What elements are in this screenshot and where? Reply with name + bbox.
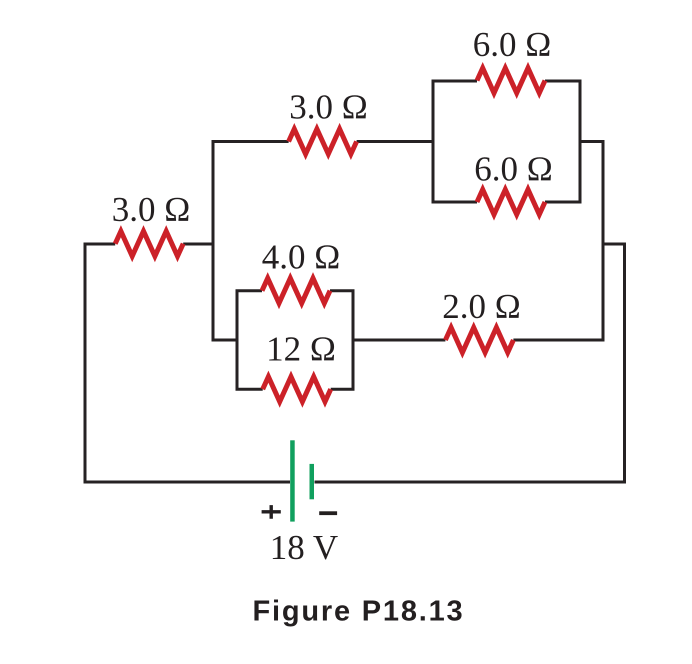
label: battery + terminal sign: [262, 505, 281, 519]
wire: left vertical and bottom-left run from left 3.0 ohm resistor to battery + terminal: [85, 244, 290, 482]
svg-text:3.0 Ω: 3.0 Ω: [112, 190, 191, 229]
battery V1 positive plate (long bar): [290, 440, 295, 521]
svg-text:18 V: 18 V: [270, 528, 338, 567]
resistor R6 12 ohm (lower of parallel pair): [263, 377, 331, 402]
resistor R4 6.0 ohm (lower of parallel pair): [477, 190, 545, 215]
wire: top branch segment from 3.0 ohm resistor to 6.0 ohm parallel box: [357, 140, 433, 143]
resistor R3 6.0 ohm (upper of parallel pair): [477, 68, 545, 93]
resistor R1 3.0 ohm (left): [115, 231, 183, 256]
svg-text:3.0 Ω: 3.0 Ω: [289, 88, 368, 127]
wire: bottom-right run from battery - terminal up right side to jog at y244: [315, 244, 625, 482]
svg-text:2.0 Ω: 2.0 Ω: [442, 287, 521, 326]
wire: 6.0 ohm parallel box right side: [545, 81, 580, 202]
svg-text:4.0 Ω: 4.0 Ω: [262, 238, 341, 277]
wire: right vertical node joining top branch output and 2.0 ohm branch: [513, 142, 603, 341]
svg-text:12 Ω: 12 Ω: [266, 330, 336, 369]
resistor R5 4.0 ohm (upper of parallel pair): [262, 278, 330, 303]
battery V1 negative plate (short bar): [310, 464, 315, 499]
label: battery - terminal sign: [319, 511, 337, 515]
svg-text:6.0 Ω: 6.0 Ω: [474, 150, 553, 189]
wire: segment from 4/12 ohm box to 2.0 ohm resistor: [353, 339, 445, 342]
wire: 4/12 ohm parallel box left side: [237, 291, 263, 390]
svg-text:6.0 Ω: 6.0 Ω: [473, 25, 552, 64]
wire: node vertical between top and bottom branches: [212, 140, 215, 342]
wire: 4/12 ohm parallel box right side: [330, 291, 353, 390]
resistor R2 3.0 ohm (top branch): [289, 129, 357, 154]
wire: segment from left 3.0 ohm resistor to node: [183, 243, 214, 246]
wire: top branch left segment to 3.0 ohm resistor: [213, 140, 289, 143]
wire: lower branch segment from node to 4/12 ohm parallel box: [213, 339, 237, 342]
wire: 6.0 ohm parallel box left side: [433, 81, 477, 202]
resistor R7 2.0 ohm: [445, 328, 513, 353]
svg-text:Figure P18.13: Figure P18.13: [253, 596, 465, 628]
